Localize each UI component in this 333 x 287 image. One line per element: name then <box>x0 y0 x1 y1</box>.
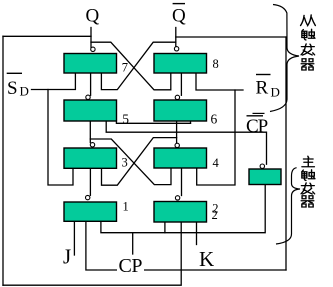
brace master flip-flop <box>276 168 300 244</box>
NAND gate U5 <box>64 100 117 121</box>
node CP input <box>117 255 144 277</box>
svg-text:6: 6 <box>211 112 218 127</box>
wire Qbar stub <box>175 28 177 47</box>
wire Qbar to right rail <box>176 36 286 38</box>
wire gate6 right pin <box>190 121 192 123</box>
node Qbar <box>172 4 186 27</box>
NAND gate U1 <box>64 202 117 221</box>
bubble gate2 output <box>175 196 179 200</box>
brace slave flip-flop <box>270 5 299 112</box>
wire left rail <box>2 36 4 285</box>
wire Qbar feedback bottom <box>86 221 286 270</box>
bubble gate4 output <box>175 143 179 147</box>
svg-text:8: 8 <box>213 57 219 71</box>
bubble gate7 output <box>91 47 95 51</box>
svg-text:Q: Q <box>86 5 100 26</box>
svg-text:5: 5 <box>122 112 129 127</box>
wire gate5 pin to gate3 bubble <box>89 121 91 143</box>
wire gate8 pin to gate6 bubble <box>180 74 182 96</box>
label slave flip-flop text <box>301 15 316 70</box>
bubble gate6 output <box>175 95 179 99</box>
wire Q to left rail <box>3 35 91 37</box>
svg-text:D: D <box>20 84 29 99</box>
wire gate3 pin to gate1 bubble <box>89 168 91 195</box>
NAND gate U4 <box>154 148 207 168</box>
wire gate2 left pin to CP line <box>164 222 166 233</box>
wire SD branch to gate3 <box>48 90 73 186</box>
wire gate7 pin to gate5 bubble <box>90 74 92 96</box>
svg-text:K: K <box>199 247 214 271</box>
wire gate5 corner to RD rail <box>116 121 190 123</box>
wire Qbar cross-couple to gate7 input <box>101 42 175 89</box>
svg-text:4: 4 <box>213 156 220 170</box>
inverter U9 <box>249 169 281 185</box>
wire Q feedback to gate2 <box>3 222 181 285</box>
svg-text:2: 2 <box>212 208 218 222</box>
wire CP label stub <box>132 233 134 254</box>
wire J pin <box>73 221 75 255</box>
NAND gate U2 <box>154 202 207 223</box>
wire gate6 branch cross to gate3 input <box>102 138 177 186</box>
svg-text:3: 3 <box>122 156 128 170</box>
wire gate5 branch cross to gate4 input <box>90 139 171 185</box>
wire RD input <box>196 74 243 91</box>
svg-text:R: R <box>256 78 269 99</box>
bubble gate1 output <box>86 195 90 199</box>
svg-text:Q: Q <box>172 5 186 26</box>
svg-text:D: D <box>271 85 280 100</box>
bubble gate5 output <box>86 95 90 99</box>
svg-text:1: 1 <box>123 200 129 214</box>
wire CP line <box>101 185 265 233</box>
pin number 2 duplicated <box>212 201 219 222</box>
svg-text:7: 7 <box>122 61 128 75</box>
label master flip-flop text <box>301 156 315 207</box>
wire RD branch to gate4 <box>197 90 235 185</box>
wire Q cross-couple to gate8 input <box>91 42 171 90</box>
wire SD input <box>32 74 76 90</box>
NAND gate U3 <box>64 148 117 168</box>
svg-text:J: J <box>63 245 71 269</box>
wire K pin <box>196 222 198 245</box>
bubble gate8 output <box>174 47 178 51</box>
NAND gate U7 <box>64 54 117 74</box>
wire Q stub <box>90 28 92 48</box>
NAND gate U6 <box>154 100 207 121</box>
bubble inverter output <box>260 164 264 168</box>
wire gate6 pin to gate4 bubble <box>176 121 178 143</box>
NAND gate U8 <box>154 54 207 74</box>
bubble gate3 output <box>90 143 94 147</box>
node CP bar <box>246 113 268 136</box>
node RD bar <box>256 75 280 100</box>
wire gate4 pin to gate2 bubble <box>181 168 183 195</box>
svg-text:S: S <box>7 78 18 99</box>
svg-text:CP: CP <box>119 255 143 277</box>
svg-text:CP: CP <box>246 116 268 137</box>
wire CPbar rail <box>106 121 266 164</box>
node SD bar <box>7 73 29 99</box>
wire right rail <box>285 37 287 270</box>
